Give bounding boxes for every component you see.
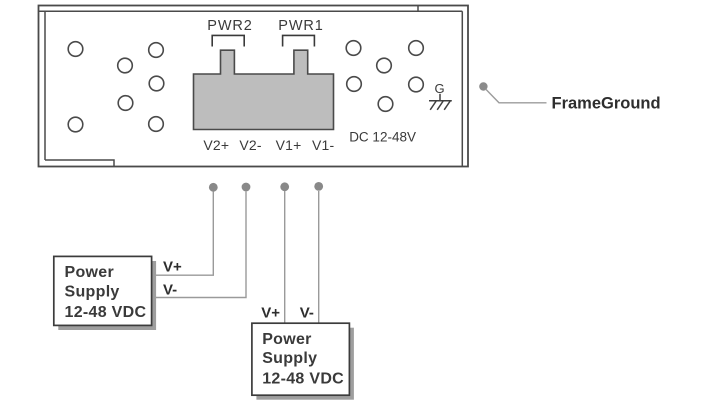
svg-text:PWR1: PWR1 [278, 18, 324, 34]
svg-text:V1+: V1+ [276, 137, 302, 153]
svg-text:V-: V- [163, 281, 177, 298]
svg-text:V-: V- [300, 305, 314, 322]
svg-text:PWR2: PWR2 [207, 18, 253, 34]
svg-text:V1-: V1- [312, 137, 335, 153]
svg-text:Supply: Supply [65, 283, 120, 300]
svg-text:G: G [434, 81, 444, 96]
svg-text:12-48 VDC: 12-48 VDC [65, 304, 147, 321]
svg-text:V+: V+ [163, 258, 182, 275]
svg-text:DC 12-48V: DC 12-48V [349, 130, 416, 145]
svg-text:Power: Power [65, 264, 115, 281]
svg-text:Power: Power [262, 331, 312, 348]
svg-text:FrameGround: FrameGround [552, 95, 661, 113]
svg-text:12-48 VDC: 12-48 VDC [262, 370, 344, 387]
svg-text:V2-: V2- [239, 137, 262, 153]
svg-text:V+: V+ [261, 305, 280, 322]
svg-text:Supply: Supply [262, 350, 317, 367]
svg-text:V2+: V2+ [203, 137, 229, 153]
